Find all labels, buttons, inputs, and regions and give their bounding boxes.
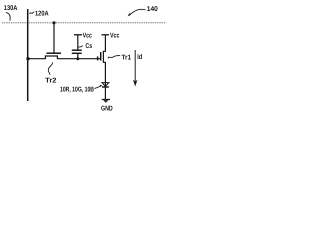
capacitor Cs plates	[72, 49, 82, 51]
leader squiggle for Tr1	[108, 55, 120, 58]
node: Tr1 gate connection tick	[97, 56, 99, 60]
svg-text:Tr2: Tr2	[45, 77, 56, 84]
svg-text:10R, 10G, 10B: 10R, 10G, 10B	[60, 87, 94, 94]
node: junction dot on data line	[26, 57, 29, 60]
leader arrow for 140	[128, 9, 146, 16]
power Vcc terminal (left)	[74, 34, 82, 36]
scan line 130A (horizontal dotted line)	[2, 22, 166, 24]
wire: Tr2 gate lead	[53, 23, 55, 53]
svg-text:Id: Id	[137, 53, 142, 61]
power Vcc terminal (right)	[102, 34, 110, 36]
LED cathode bar	[102, 86, 109, 88]
transistor Tr1 gate bar	[100, 52, 102, 61]
transistor Tr1 drain/channel/source	[103, 35, 105, 100]
ground GND symbol	[102, 99, 110, 101]
leader tilde for 120A	[30, 12, 35, 14]
svg-text:Vcc: Vcc	[83, 33, 92, 40]
leader for 10R,10G,10B	[94, 86, 101, 89]
wire: row wire with Tr2 channel bump	[28, 56, 101, 59]
leader squiggle for Tr2	[48, 62, 52, 75]
node: junction dot of Tr2 gate on scan line	[52, 21, 55, 24]
svg-text:120A: 120A	[35, 11, 49, 18]
svg-text:130A: 130A	[4, 5, 18, 12]
svg-text:Cs: Cs	[85, 43, 92, 50]
leader tilde for Cs	[79, 46, 83, 48]
current arrow Id	[134, 50, 136, 84]
node: junction dot Cs/row wire	[76, 57, 79, 60]
svg-text:GND: GND	[101, 106, 113, 113]
leader for 130A	[6, 12, 10, 20]
data line 120A (vertical line)	[27, 9, 29, 101]
LED 10R/10G/10B (organic EL element) triangle	[102, 83, 109, 87]
wire: Cs to row wire	[77, 53, 79, 59]
wire: Vcc to Cs	[77, 35, 79, 50]
svg-text:Vcc: Vcc	[110, 33, 119, 40]
svg-text:140: 140	[147, 6, 158, 13]
transistor Tr2 gate bar	[47, 52, 62, 54]
svg-text:Tr1: Tr1	[122, 54, 132, 61]
